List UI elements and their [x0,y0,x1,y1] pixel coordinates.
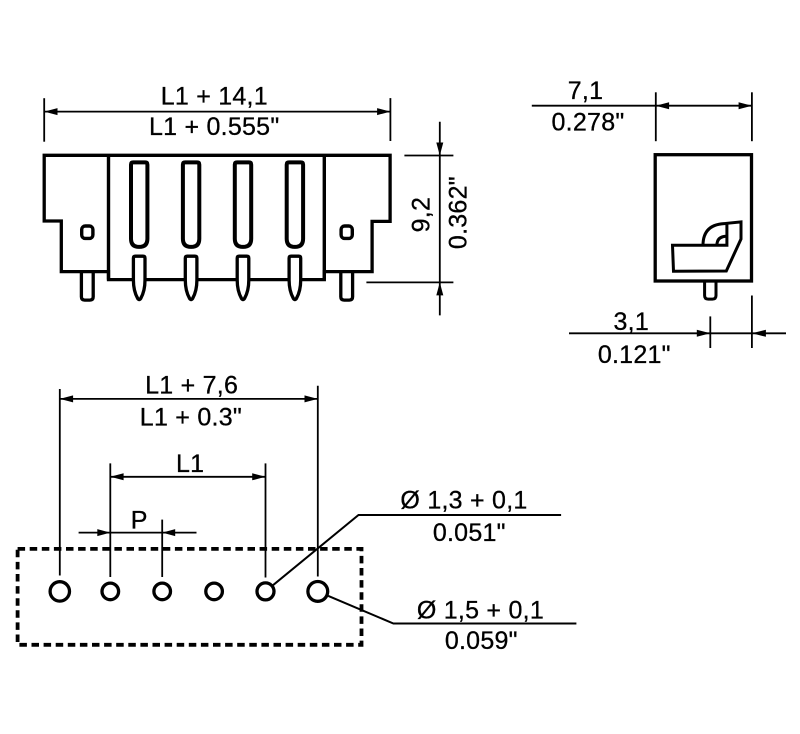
drill hole 1 (1.5mm) [50,582,69,601]
dimension 3,1 line [569,332,786,334]
dimension L1+14,1 arrowhead right [377,108,390,115]
dimension 9,2 extension line top [404,155,453,157]
dimension 7,1 extension line right [751,92,753,141]
dimension 9,2 extension line bottom [366,281,453,283]
front view solder pin 3 [237,256,249,299]
drill hole 6 (1.5mm) [308,582,328,602]
dimension 3,1 extension line right [751,296,753,349]
side view clamp lever outer arc [703,224,727,246]
svg-text:L1 + 0.3": L1 + 0.3" [140,403,242,431]
front view latch hole right [341,226,352,238]
front view fixing peg right [341,272,353,301]
svg-text:L1 + 14,1: L1 + 14,1 [161,83,268,111]
dimension L1 extension line right [265,463,267,577]
front view slot 1 [131,162,147,247]
dimension 3,1 extension line left [709,316,711,348]
front view fixing peg left [81,272,93,301]
drill hole 5 (1.3mm) [257,583,274,600]
dimension L1+7,6 line [60,398,318,400]
dimension 9,2 line [439,122,441,316]
side view solder pin [705,281,716,299]
svg-text:0.362": 0.362" [445,176,473,249]
svg-text:0.051": 0.051" [433,519,506,547]
front view slot 3 [235,162,251,247]
dimension L1 arrowhead right [252,473,265,480]
connector front view body outline [44,155,390,279]
dimension L1+14,1 extension line right [389,98,391,141]
drill hole 4 (1.3mm) [206,583,223,600]
svg-text:P: P [131,506,148,534]
svg-text:Ø 1,5 + 0,1: Ø 1,5 + 0,1 [417,597,544,625]
dimension L1 line [110,476,265,478]
dimension P extension line [161,520,163,577]
connector side view body [655,155,751,281]
dimension P line [79,532,197,534]
svg-text:9,2: 9,2 [407,197,435,233]
side view clamp lever outline [673,222,742,271]
dimension L1+7,6 extension line right [317,386,319,577]
front view partition wall left [107,155,110,279]
dimension L1+14,1 extension line left [43,98,45,142]
front view solder pin 2 [185,256,197,299]
svg-text:7,1: 7,1 [568,77,604,105]
dimension 7,1 line [532,105,752,107]
dimension L1+7,6 arrowhead left [60,395,73,402]
front view slot 4 [287,162,303,247]
leader line dia 1,3 [273,515,561,585]
dimension 7,1 extension line left [655,92,657,141]
svg-text:Ø 1,3 + 0,1: Ø 1,3 + 0,1 [400,487,527,515]
front view solder pin 4 [289,256,301,299]
dimension 7,1 arrowhead right [739,102,752,109]
front view solder pin 1 [133,256,145,299]
dimension 9,2 arrowhead bottom [436,282,443,295]
dimension L1+14,1 line [44,111,390,113]
dimension L1+7,6 extension line left [59,389,61,576]
dimension P arrowhead right [162,529,175,536]
dimension 9,2 arrowhead top [436,143,443,156]
front view slot 2 [183,162,199,247]
dimension P arrowhead left [97,529,110,536]
drilling plan dashed outline [18,549,362,645]
front view latch hole left [82,226,93,238]
svg-text:L1 + 7,6: L1 + 7,6 [145,371,238,399]
svg-text:0.059": 0.059" [445,627,518,655]
drill hole 3 (1.3mm) [154,583,171,600]
svg-text:0.278": 0.278" [552,108,625,136]
dimension L1+14,1 arrowhead left [44,108,57,115]
svg-text:3,1: 3,1 [614,308,650,336]
dimension 7,1 arrowhead left [656,102,669,109]
leader line dia 1,5 [328,596,576,624]
svg-text:L1 + 0.555": L1 + 0.555" [149,113,279,141]
svg-text:0.121": 0.121" [598,341,671,369]
svg-text:L1: L1 [176,450,204,478]
drill hole 2 (1.3mm) [102,583,119,600]
dimension L1+7,6 arrowhead right [305,395,318,402]
dimension 3,1 arrowhead left [697,330,711,337]
dimension L1 arrowhead left [110,473,123,480]
dimension 3,1 arrowhead right [752,330,766,337]
dimension L1 extension line left [109,463,111,577]
front view partition wall right [323,155,326,279]
side view clamp lever inner arc [717,236,727,245]
